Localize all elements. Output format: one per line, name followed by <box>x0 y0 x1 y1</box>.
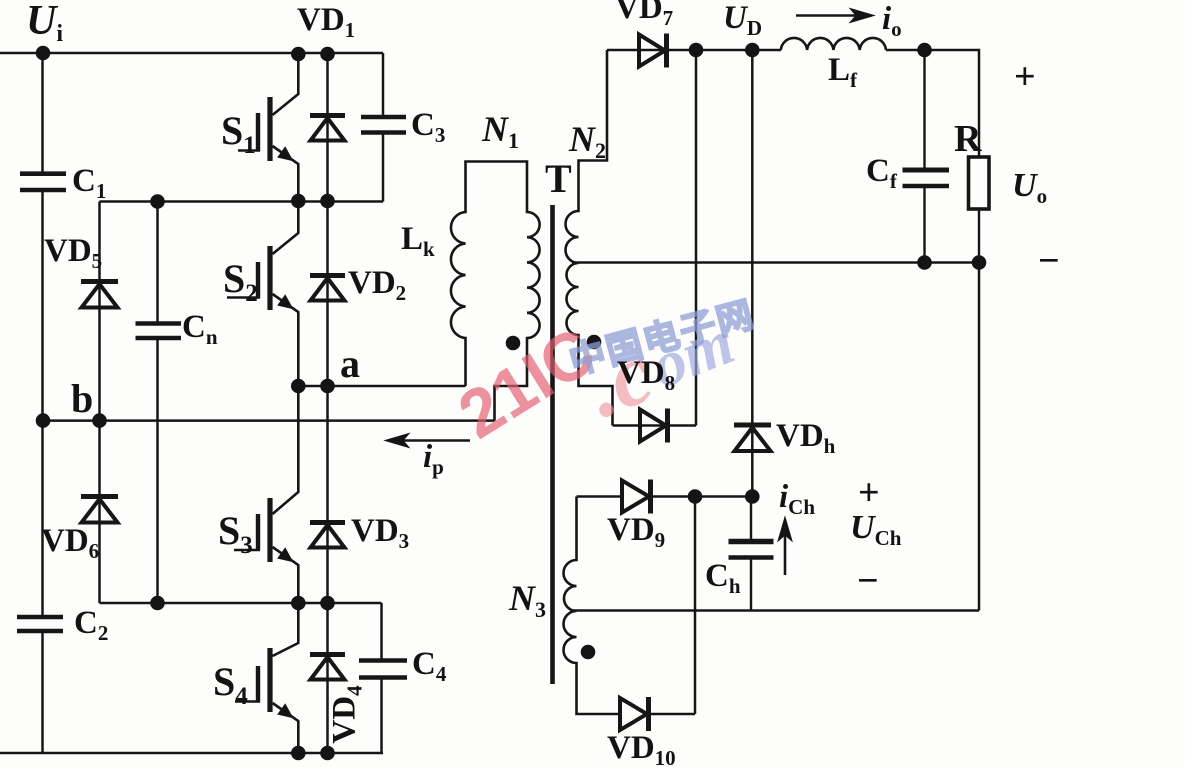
wire VD8 to top rail vertical x696 <box>695 50 698 426</box>
diode VD9 <box>622 480 651 514</box>
transistor S1 (IGBT) <box>238 54 298 201</box>
diode VDh <box>734 425 771 451</box>
label C3 <box>411 109 445 142</box>
wire N2 center tap / output minus rail <box>572 261 979 264</box>
label minus UCh <box>857 562 879 600</box>
label N1 <box>482 111 519 147</box>
label VD5 <box>44 235 102 268</box>
label VD2 <box>348 267 406 300</box>
diode VD1 <box>310 116 345 141</box>
iCh arrow <box>778 517 792 575</box>
wire top rail left (Ui to C3 corner) <box>0 52 383 55</box>
label a <box>340 344 360 384</box>
inductor Lf <box>781 38 886 50</box>
label Lk <box>401 223 435 256</box>
label C1 <box>72 165 106 198</box>
capacitor C3 <box>361 117 406 133</box>
label b <box>71 379 93 419</box>
label plus Uo <box>1014 58 1036 96</box>
wire VD10 right vertical x695 <box>694 497 697 715</box>
label VD4 (rotated) <box>329 685 362 743</box>
wire C3 right vertical upper <box>382 53 385 116</box>
wire top rail right (UD rail) <box>607 49 781 52</box>
wire bottom rail <box>0 752 383 755</box>
winding N2 <box>566 50 613 426</box>
label plus UCh <box>858 474 880 512</box>
diode VD7 <box>639 34 667 68</box>
wire VD9 line <box>577 495 753 498</box>
label R <box>954 120 981 158</box>
inductor Lk + winding N1 outline <box>451 162 540 421</box>
label N3 <box>509 580 546 616</box>
wire mid junction line y201 (C1/VD5 to C3) <box>100 200 384 203</box>
diode VD8 <box>613 409 697 443</box>
wire left rail vertical middle <box>41 192 44 616</box>
wire left rail vertical upper <box>41 53 44 172</box>
label minus Uo <box>1038 242 1060 280</box>
capacitor Cf <box>903 50 950 263</box>
diode VD4 <box>310 655 345 680</box>
label T <box>545 159 572 199</box>
label VD10 <box>607 732 676 765</box>
label UCh <box>850 511 901 545</box>
capacitor Ch <box>729 497 774 611</box>
wire C3 right vertical lower <box>382 135 385 202</box>
diode VD2 <box>310 276 345 301</box>
winding N3 <box>564 497 695 715</box>
watermark chinese characters <box>566 296 759 380</box>
label VD9 <box>607 514 665 547</box>
label io <box>882 3 902 36</box>
transformer core T <box>550 205 555 684</box>
label S1 <box>221 111 256 151</box>
capacitor C2 <box>17 617 63 631</box>
wire VD5-VD6 vertical x99.5 <box>98 202 101 604</box>
label Cf <box>866 155 897 188</box>
diode VD3 <box>310 523 345 548</box>
wire left rail vertical lower <box>41 633 44 754</box>
capacitor C1 <box>20 174 66 190</box>
label Cn <box>182 311 218 344</box>
wire C4 right vertical lower <box>380 680 383 754</box>
transistor S2 (IGBT) <box>227 201 298 386</box>
wire UD vertical with VDh x752.3 <box>751 50 754 497</box>
label ip <box>423 441 444 474</box>
wire a line <box>298 385 465 388</box>
label N2 <box>569 121 606 157</box>
label S2 <box>223 259 258 299</box>
label VD3 <box>351 515 409 548</box>
label C2 <box>74 607 108 640</box>
label VD8 <box>617 357 675 390</box>
label VDh <box>776 420 835 453</box>
wire VD1-VD4 vertical x327.5 <box>326 54 329 753</box>
wire C4 right vertical upper <box>380 603 383 659</box>
wire Lf right to R corner <box>886 50 979 157</box>
label Ui <box>26 0 63 42</box>
ip arrow <box>385 434 470 448</box>
watermark .com script <box>575 298 745 433</box>
label VD7 <box>615 0 673 25</box>
wire Cn vertical upper <box>156 202 159 323</box>
transistor S3 (IGBT) <box>234 386 298 603</box>
capacitor Cn <box>136 324 182 339</box>
label C4 <box>412 648 446 681</box>
capacitor C4 <box>359 661 407 678</box>
label VD1 <box>297 4 355 37</box>
diode VD6 <box>81 497 118 523</box>
io arrow <box>796 9 874 23</box>
label iCh <box>779 481 815 514</box>
label VD6 <box>41 525 99 558</box>
diode VD10 <box>620 697 649 731</box>
diode VD5 <box>81 282 118 308</box>
wire Cn vertical lower <box>156 340 159 603</box>
watermark 21IC red text <box>448 316 606 450</box>
transistor S4 (IGBT) <box>235 603 298 753</box>
wire y603 junction line <box>100 602 382 605</box>
label Lf <box>828 54 857 87</box>
label UD <box>723 2 762 35</box>
resistor R <box>969 157 990 263</box>
wire N3 center tap rail <box>570 609 979 612</box>
label S4 <box>213 662 248 702</box>
label S3 <box>218 511 253 551</box>
label Ch <box>705 560 741 593</box>
wire right vertical below minus rail <box>978 263 981 611</box>
wire b line <box>43 419 495 422</box>
label Uo <box>1012 169 1047 203</box>
